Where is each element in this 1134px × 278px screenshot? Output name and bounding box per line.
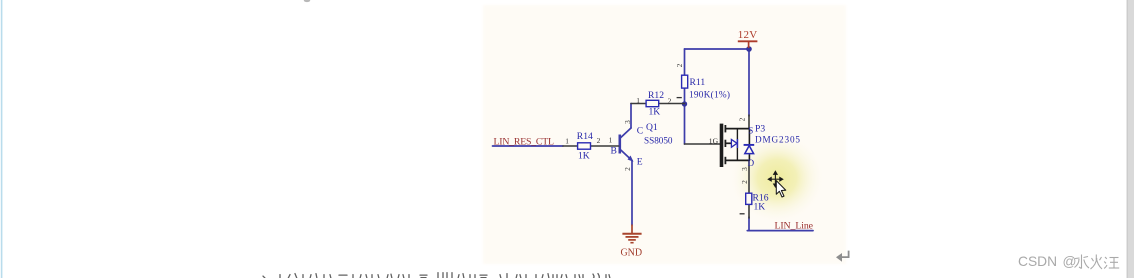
svg-text:1: 1 [609, 136, 613, 145]
svg-text:1K: 1K [578, 151, 590, 162]
svg-text:1G: 1G [709, 136, 719, 145]
svg-text:E: E [637, 157, 643, 168]
svg-text:2: 2 [737, 117, 746, 121]
svg-text:LIN_RES_CTL: LIN_RES_CTL [494, 137, 555, 148]
svg-text:1: 1 [636, 96, 640, 105]
svg-text:R14: R14 [577, 131, 593, 142]
svg-text:DMG2305: DMG2305 [755, 135, 800, 145]
svg-text:2: 2 [675, 63, 684, 67]
svg-text:R11: R11 [690, 77, 706, 88]
svg-text:2: 2 [668, 97, 672, 106]
svg-text:190K(1%): 190K(1%) [689, 90, 730, 101]
svg-text:R12: R12 [648, 90, 664, 101]
svg-text:S: S [748, 126, 753, 136]
svg-text:2: 2 [740, 180, 749, 184]
svg-text:CSDN: CSDN [1018, 254, 1057, 269]
svg-text:12V: 12V [738, 29, 758, 41]
svg-text:C: C [637, 126, 643, 137]
svg-text:2: 2 [597, 136, 601, 145]
svg-text:SS8050: SS8050 [644, 136, 673, 146]
svg-text:@: @ [1063, 254, 1077, 269]
svg-text:P3: P3 [755, 124, 765, 135]
svg-text:3: 3 [740, 167, 749, 171]
svg-text:3: 3 [623, 120, 632, 124]
svg-text:Q1: Q1 [646, 122, 658, 133]
svg-text:LIN_Line: LIN_Line [775, 221, 814, 232]
svg-text:1K: 1K [754, 202, 766, 213]
svg-text:1: 1 [565, 136, 569, 145]
svg-text:1K: 1K [649, 107, 661, 118]
svg-text:D: D [748, 158, 755, 168]
svg-text:B: B [611, 146, 617, 157]
svg-text:GND: GND [621, 247, 643, 258]
svg-text:2: 2 [623, 167, 632, 171]
